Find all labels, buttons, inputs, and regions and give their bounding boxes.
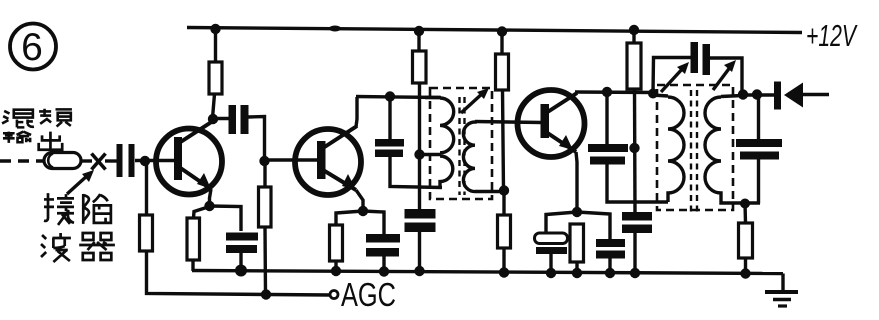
input dashed wire	[0, 159, 44, 162]
node T1 tap	[414, 149, 424, 159]
wire	[605, 92, 608, 144]
wire	[105, 159, 117, 162]
node rail blob	[329, 26, 341, 32]
node ground C2	[235, 265, 247, 277]
wire	[334, 261, 337, 272]
T2 core	[691, 90, 697, 212]
wire	[248, 117, 265, 162]
wire	[265, 158, 320, 161]
wire Q3 collector to T2	[575, 90, 655, 94]
node T2 tank top	[602, 87, 612, 97]
IF transformer T1 shield box	[430, 88, 492, 199]
capacitor C9 (electrolytic, Q3 emitter)	[535, 233, 568, 274]
wire	[418, 232, 421, 272]
wire	[363, 211, 384, 234]
wire	[577, 212, 610, 239]
node ground C8	[630, 268, 640, 278]
resistor R5 (Q2 emitter)	[330, 225, 343, 261]
capacitor C11 (top coupling)	[653, 42, 742, 95]
capacitor C8 (supply bypass)	[622, 212, 652, 233]
wire	[191, 260, 194, 271]
svg-text:AGC: AGC	[341, 276, 396, 313]
T2 tuning arrow right	[713, 60, 736, 90]
capacitor C4 (Q2 emitter bypass)	[366, 234, 400, 257]
arrow to X	[67, 170, 94, 194]
node T1 secondary bottom	[499, 185, 509, 195]
label char 混	[2, 110, 34, 128]
label char 输	[3, 132, 31, 143]
svg-text:+12V: +12V	[806, 18, 858, 53]
node T2 secondary bottom	[740, 199, 750, 209]
resistor R3 (Q1 emitter)	[187, 218, 200, 260]
resistor R7 (Q3 upper bias)	[496, 26, 509, 190]
label char 频	[39, 109, 72, 127]
wire	[213, 94, 215, 118]
node T2 secondary top	[738, 89, 748, 99]
wire	[210, 206, 242, 231]
node C7 top tie	[629, 143, 639, 153]
input filter FL1 (pill)	[44, 153, 81, 169]
transistor Q3	[518, 90, 585, 212]
label char 器	[79, 233, 115, 260]
wire	[633, 233, 636, 274]
node ground R5	[331, 266, 341, 276]
resistor R8 (Q3 lower bias)	[498, 190, 511, 273]
resistor R10 (Q3 emitter)	[570, 224, 584, 274]
node rail R2	[210, 24, 220, 34]
node Q2 base	[259, 156, 269, 166]
T2 secondary winding L4	[705, 96, 760, 204]
T1 tuning arrow	[461, 88, 489, 113]
transistor Q2	[295, 97, 363, 211]
label char 接	[44, 193, 74, 225]
T1 secondary winding L2	[463, 122, 504, 192]
wire	[81, 159, 92, 162]
node ground R10	[572, 268, 582, 278]
capacitor C6 (supply bypass)	[405, 209, 436, 232]
wire	[382, 256, 385, 272]
node ground R11	[740, 268, 750, 278]
resistor R1 (Q1 base bias / AGC)	[140, 215, 153, 251]
ground rail wire	[192, 271, 783, 274]
node Q2 emitter	[358, 206, 368, 216]
IF transformer T2 shield box	[657, 85, 733, 210]
wire	[608, 258, 611, 274]
wire T2 secondary top	[742, 93, 775, 96]
wire	[194, 207, 210, 219]
wire	[147, 251, 331, 295]
node Q1 emitter	[204, 201, 214, 211]
node Q1 collector	[208, 114, 218, 124]
capacitor C12 (T2 secondary tuning)	[736, 139, 782, 160]
node ground R8	[499, 267, 509, 277]
+12V rail wire	[187, 28, 802, 33]
svg-text:6: 6	[21, 26, 43, 69]
figure number badge 6	[10, 24, 56, 70]
T1 core	[460, 97, 465, 195]
X mark (trap connection point)	[92, 154, 106, 170]
resistor R2 (Q1 collector load)	[209, 62, 222, 94]
wire Q2 collector to T1	[356, 97, 441, 98]
T2 primary winding L3	[652, 95, 684, 202]
wire T1 secondary to Q3 base	[475, 122, 542, 123]
label char 波	[41, 233, 71, 262]
node ground C4	[379, 266, 389, 276]
node ground C9	[546, 268, 556, 278]
resistor R4 (Q2 base bias)	[259, 161, 272, 294]
capacitor C2 (Q1 emitter bypass)	[226, 233, 258, 254]
T2 tuning arrow left	[661, 62, 689, 92]
capacitor C1 (input coupling)	[117, 144, 135, 177]
resistor R9 (supply decoupling)	[627, 25, 641, 212]
transistor Q1	[156, 121, 222, 207]
capacitor C3 (interstage coupling)	[229, 105, 249, 134]
ground symbol	[765, 274, 798, 307]
T1 primary winding L1	[425, 98, 454, 188]
capacitor C5 (T1 tuning)	[375, 139, 404, 157]
capacitor C10 (Q3 emitter bypass)	[596, 239, 625, 259]
node Q3 emitter	[572, 207, 582, 217]
wire coupling C3	[212, 117, 229, 120]
label char 出	[39, 132, 63, 150]
node AGC junction	[261, 289, 271, 299]
wire	[145, 161, 148, 215]
wire	[390, 157, 442, 188]
label char 陷	[83, 194, 111, 224]
wire	[607, 165, 668, 203]
wire	[546, 212, 577, 233]
capacitor C7 (T2 primary tuning)	[588, 144, 628, 165]
wire	[336, 211, 363, 225]
node ground C10	[605, 268, 615, 278]
wire	[214, 29, 217, 62]
wire	[239, 252, 242, 271]
node ground C6	[414, 266, 424, 276]
wire tap	[419, 153, 441, 156]
wire	[757, 95, 760, 139]
wire	[388, 96, 391, 139]
resistor R11 (detector load)	[739, 203, 753, 274]
AGC terminal	[330, 291, 338, 299]
node Q1 base	[140, 156, 150, 166]
resistor R6 (T1 supply feed)	[413, 26, 427, 209]
node C12 top	[752, 89, 762, 99]
node tank top	[385, 91, 395, 101]
node T2 primary top	[648, 89, 658, 99]
wire	[757, 159, 760, 204]
wire	[135, 159, 176, 162]
diode D1 (detector)	[774, 82, 829, 110]
